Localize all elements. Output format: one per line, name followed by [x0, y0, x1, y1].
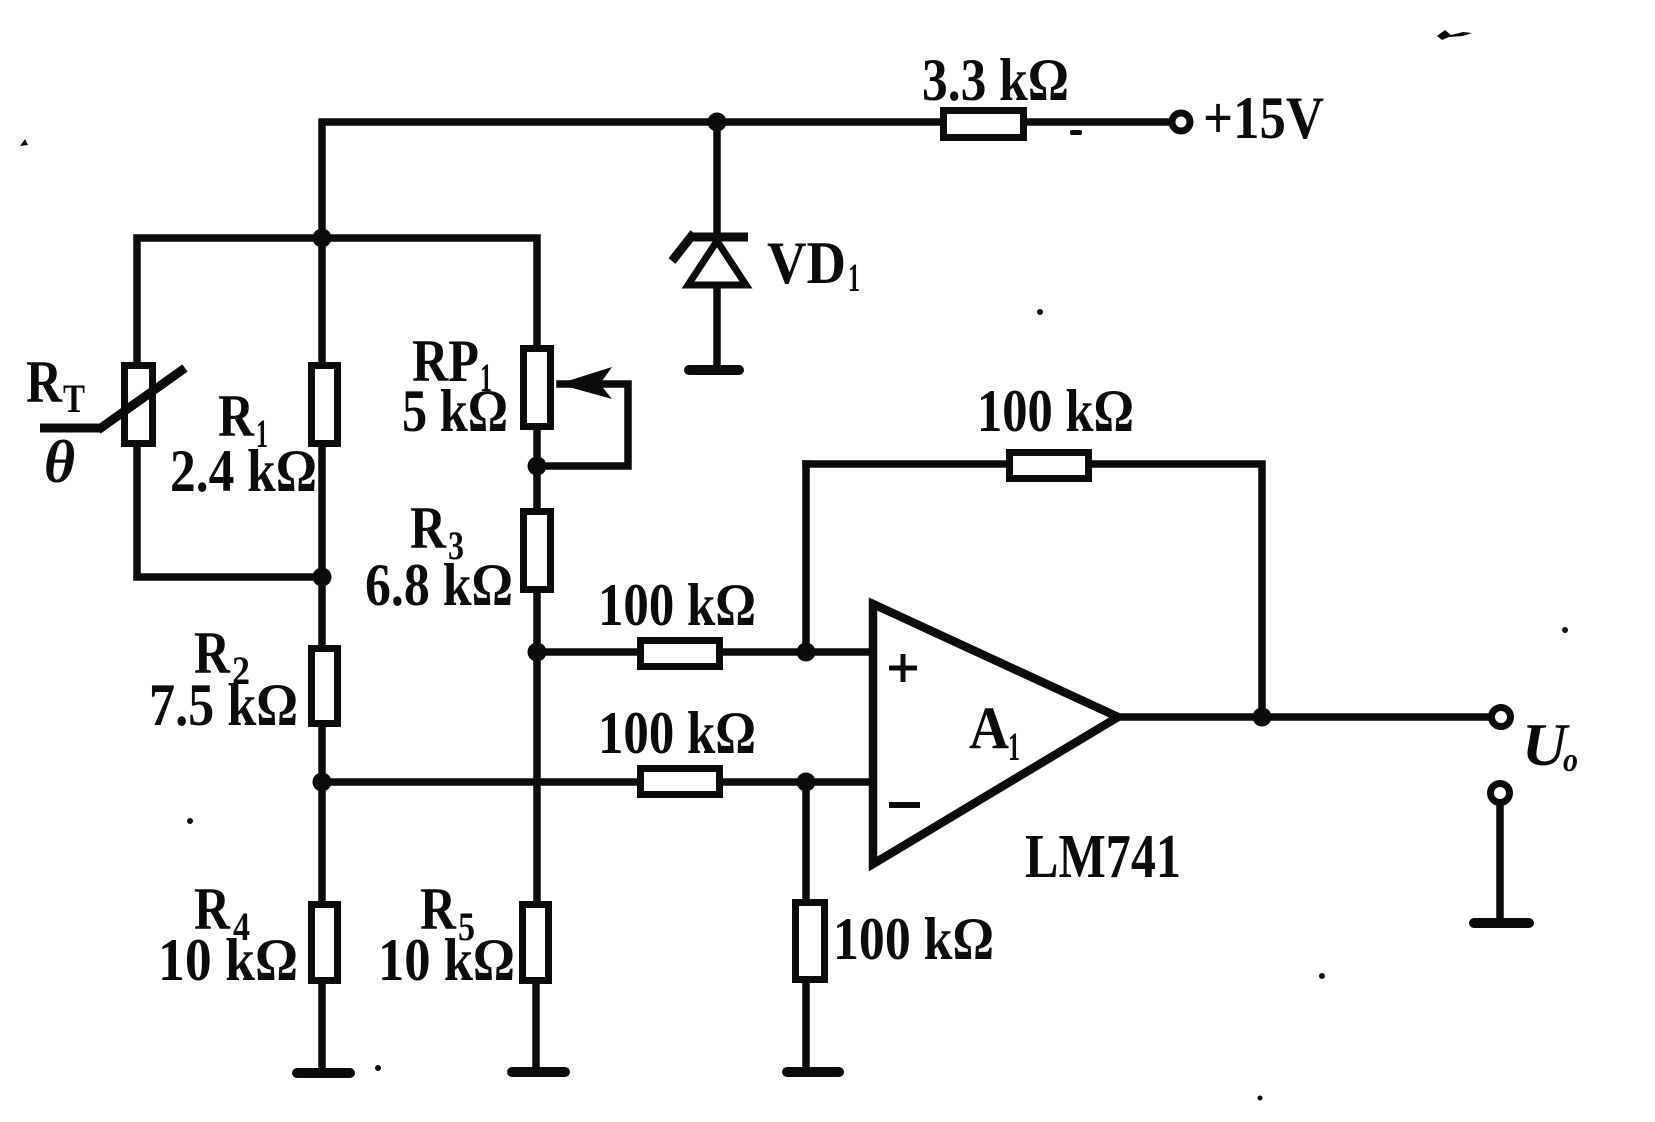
wire: R3 bottom down through plus node to R5: [533, 593, 541, 901]
svg-text:100 kΩ: 100 kΩ: [977, 378, 1134, 444]
stray speck 3: [187, 818, 193, 824]
terminal: +15V: [1172, 113, 1190, 131]
svg-text:10 kΩ: 10 kΩ: [378, 927, 515, 993]
stray speck 7: [1070, 130, 1082, 135]
svg-text:100 kΩ: 100 kΩ: [833, 906, 994, 972]
wire: plus input wire to op-amp: [723, 648, 873, 656]
wire: grounding resistor to ground: [802, 983, 810, 1069]
wire: VD1 bottom lead: [713, 285, 721, 368]
ground: under R4: [297, 1068, 350, 1078]
wire: upper bridge rail y=238: [137, 238, 537, 362]
svg-text:1: 1: [848, 255, 860, 300]
wire: minus input wire y=782: [322, 778, 637, 786]
svg-text:LM741: LM741: [1025, 823, 1181, 891]
resistor 100k feedback: [1010, 453, 1089, 479]
resistor R4 10k: [312, 905, 338, 981]
wire: plus input wire y=652: [546, 648, 637, 656]
op-amp A1: [873, 604, 1118, 864]
svg-text:VD: VD: [767, 230, 846, 296]
svg-text:A: A: [969, 695, 1009, 761]
stray speck 8: [1258, 1096, 1263, 1101]
wire: RP1 bottom to R3: [533, 430, 541, 508]
wire: R1-R2 rail segment: [318, 447, 326, 645]
thermistor RT: [40, 366, 185, 444]
wire: RT bottom to rail: [137, 447, 322, 577]
svg-text:2.4 kΩ: 2.4 kΩ: [170, 438, 317, 504]
resistor 3.3k: [944, 111, 1024, 138]
resistor 100k minus input: [641, 769, 720, 795]
node: junction x322 y782: [313, 773, 332, 792]
svg-text:o: o: [1563, 742, 1578, 779]
node: junction x806 y652: [797, 643, 816, 662]
node: junction x537 y652: [528, 643, 547, 662]
svg-text:+15V: +15V: [1203, 85, 1324, 151]
ground: under VD1: [689, 365, 739, 375]
potentiometer RP1 5k: [524, 349, 613, 427]
svg-text:R: R: [26, 349, 63, 415]
terminal: Uo lower: [1491, 784, 1510, 803]
ground: under grounding resistor: [787, 1067, 839, 1077]
wire: R5 to ground: [532, 984, 540, 1069]
terminal: Uo upper: [1492, 708, 1511, 727]
wire: feedback top run: [806, 460, 1006, 468]
op-amp plus pin mark: [889, 654, 917, 682]
wire: VD1 top lead: [713, 122, 721, 237]
stray speck 1: [20, 139, 28, 146]
resistor R3 6.8k: [524, 512, 551, 590]
stray speck 2: [1037, 309, 1043, 315]
svg-text:1: 1: [1008, 724, 1020, 769]
wire: Uo lower terminal to ground: [1496, 804, 1504, 920]
stray speck 4: [375, 1065, 381, 1071]
ground: under R5: [512, 1067, 565, 1077]
wire: RP1 wiper loop: [546, 384, 628, 466]
zener diode VD1: [672, 233, 748, 285]
wire: output wire: [1118, 713, 1490, 721]
svg-text:5 kΩ: 5 kΩ: [402, 378, 508, 444]
ground: under Uo terminal: [1474, 918, 1529, 928]
svg-text:θ: θ: [44, 429, 75, 495]
svg-text:6.8 kΩ: 6.8 kΩ: [365, 552, 513, 618]
resistor R2 7.5k: [312, 649, 338, 724]
svg-text:3.3 kΩ: 3.3 kΩ: [922, 47, 1069, 113]
resistor 100k plus input: [641, 641, 720, 667]
node: junction x322 y238: [313, 229, 332, 248]
wire: R4 to ground: [318, 984, 326, 1069]
svg-text:7.5 kΩ: 7.5 kΩ: [149, 672, 298, 738]
resistor R1 2.4k: [312, 366, 338, 444]
svg-text:100 kΩ: 100 kΩ: [598, 700, 756, 766]
wire: R2 to minus-node rail segment: [318, 727, 326, 901]
wire: top +15V rail: [322, 122, 1170, 362]
resistor 100k grounding: [796, 903, 825, 980]
svg-text:10 kΩ: 10 kΩ: [158, 927, 298, 993]
wire: feedback right run and drop: [1092, 464, 1262, 717]
stray speck 5: [1562, 627, 1568, 633]
resistor R5 10k: [523, 905, 549, 981]
node: junction x1262 y717: [1253, 708, 1272, 727]
node: junction x322 y577: [313, 568, 332, 587]
node: junction RP1 wiper tie x537 y466: [528, 457, 547, 476]
wire: grounding resistor drop: [802, 782, 810, 899]
stray ink mark top right: [1437, 30, 1472, 40]
wire: minus input wire to op-amp: [723, 778, 873, 786]
stray speck 6: [1319, 973, 1325, 979]
node: junction x717 y122 (VD1 tap): [708, 113, 727, 132]
svg-text:T: T: [63, 376, 85, 421]
op-amp minus pin mark: [889, 802, 920, 808]
node: junction x806 y782: [797, 773, 816, 792]
svg-text:100 kΩ: 100 kΩ: [598, 572, 756, 638]
wire: feedback left drop: [802, 464, 810, 652]
